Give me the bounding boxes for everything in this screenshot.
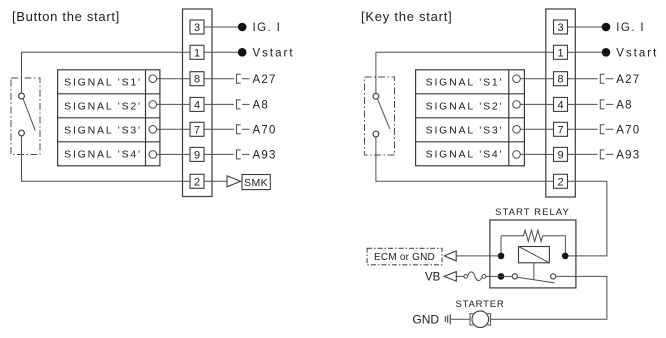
signal block (left) (58, 70, 160, 166)
connector strip J1 (left) (183, 9, 213, 197)
svg-text:SIGNAL 'S1': SIGNAL 'S1' (426, 77, 504, 89)
arrow VB (444, 272, 456, 282)
inline connector (circle squiggle circle) (464, 272, 501, 281)
wire relay switch out to starter (491, 276, 607, 319)
svg-text:Vstart: Vstart (253, 47, 295, 59)
svg-text:SIGNAL 'S2': SIGNAL 'S2' (64, 101, 142, 113)
wire switch bottom to pin 2 (left) (22, 136, 191, 181)
pin 2 (right) (554, 174, 568, 188)
svg-text:1: 1 (557, 47, 563, 59)
connector symbol A27 (right) (600, 74, 613, 83)
svg-text:8: 8 (557, 74, 563, 86)
svg-text:A8: A8 (253, 100, 269, 112)
junction dot coil right (562, 253, 569, 260)
relay switch contacts (501, 274, 556, 283)
wire pin 1 to Vstart (right) (568, 51, 603, 53)
pin 1 (left) (190, 45, 204, 59)
terminal dot IG. I (left) (238, 23, 247, 32)
pin 4 (left) (190, 97, 204, 111)
connector symbol A93 (left) (237, 150, 250, 159)
svg-text:SIGNAL 'S3': SIGNAL 'S3' (64, 125, 142, 137)
svg-text:2: 2 (557, 176, 563, 188)
svg-text:2: 2 (194, 176, 200, 188)
terminal dot IG. I (right) (602, 23, 611, 32)
svg-text:SIGNAL 'S4': SIGNAL 'S4' (64, 149, 142, 161)
connector symbol A70 (left) (237, 125, 250, 134)
connector symbol A70 (right) (600, 125, 613, 134)
wire pin 7 to A70 (right) (568, 128, 598, 130)
output contact circle S1 (left) (149, 75, 157, 83)
svg-text:VB: VB (425, 271, 441, 283)
wire S3 to pin 7 (left) (157, 128, 190, 130)
svg-text:9: 9 (557, 149, 563, 161)
pin 2 (left) (190, 174, 204, 188)
wire switch bottom to pin 2 (right) (376, 137, 554, 181)
svg-text:A93: A93 (253, 150, 277, 162)
wire pin 2 down to relay coil (right) (565, 181, 607, 256)
switch SW1 (left) (19, 93, 36, 136)
svg-text:9: 9 (194, 149, 200, 161)
wire S4 to pin 9 (left) (157, 153, 190, 155)
wire ground to starter motor (451, 318, 470, 320)
wire switch top to pin 1 (left) (22, 52, 191, 93)
output contact circle S2 (right) (513, 101, 521, 109)
ground stud symbol (445, 314, 450, 324)
svg-text:[Button the start]: [Button the start] (12, 9, 120, 24)
output contact circle S4 (left) (149, 151, 157, 159)
wire pin 2 to SMK (left) (204, 180, 227, 182)
svg-text:GND: GND (412, 313, 439, 327)
svg-text:A27: A27 (253, 74, 277, 86)
pin 1 (right) (554, 45, 568, 59)
wire pin 9 to A93 (left) (204, 153, 234, 155)
svg-text:SIGNAL 'S1': SIGNAL 'S1' (64, 77, 142, 89)
wire VB to connector (456, 275, 464, 277)
terminal dot Vstart (left) (238, 48, 247, 57)
svg-text:8: 8 (194, 74, 200, 86)
starter motor M1 (470, 311, 491, 328)
svg-text:7: 7 (194, 124, 200, 136)
svg-text:4: 4 (557, 99, 563, 111)
svg-text:IG. I: IG. I (253, 22, 282, 34)
wire resistor left lead down (500, 236, 502, 256)
wire pin 4 to A8 (right) (568, 103, 598, 105)
arrow to ECM or GND (444, 251, 456, 261)
svg-text:A70: A70 (253, 124, 277, 136)
wire pin 4 to A8 (left) (204, 103, 234, 105)
svg-text:IG. I: IG. I (616, 22, 645, 34)
switch SW2 (right) (373, 93, 390, 137)
relay coil L1 (519, 247, 550, 263)
wire pin 8 to A27 (left) (204, 78, 234, 80)
svg-text:SIGNAL 'S2': SIGNAL 'S2' (426, 101, 504, 113)
pin 3 (right) (554, 20, 568, 34)
pin 7 (right) (554, 122, 568, 136)
svg-text:A8: A8 (616, 100, 632, 112)
wire S4 to pin 9 (right) (520, 153, 553, 155)
svg-text:Vstart: Vstart (616, 47, 658, 59)
wire S1 to pin 8 (right) (520, 78, 553, 80)
terminal dot Vstart (right) (602, 48, 611, 57)
SMK box (242, 175, 270, 190)
switch enclosure (dash-dot, left) (11, 78, 40, 155)
arrow to SMK (227, 176, 241, 187)
wire pin 9 to A93 (right) (568, 153, 598, 155)
svg-text:3: 3 (557, 22, 563, 34)
signal block (right) (416, 70, 525, 166)
relay actuator link (533, 263, 535, 280)
wire pin 8 to A27 (right) (568, 78, 598, 80)
connector strip J2 (right) (546, 9, 576, 197)
pin 7 (left) (190, 122, 204, 136)
wire S3 to pin 7 (right) (520, 128, 553, 130)
junction dot switch common (498, 273, 505, 280)
svg-text:A93: A93 (616, 150, 640, 162)
wire pin 7 to A70 (left) (204, 128, 234, 130)
resistor R1 (relay) (501, 230, 565, 241)
junction dot coil left (498, 253, 505, 260)
start relay box K1 (490, 220, 576, 288)
wire S2 to pin 4 (left) (157, 103, 190, 105)
pin 9 (right) (554, 147, 568, 161)
connector symbol A8 (left) (237, 100, 250, 109)
svg-text:3: 3 (194, 22, 200, 34)
output contact circle S4 (right) (513, 151, 521, 159)
svg-text:ECM or GND: ECM or GND (374, 252, 435, 263)
svg-text:4: 4 (194, 99, 200, 111)
pin 4 (right) (554, 97, 568, 111)
connector symbol A27 (left) (237, 74, 250, 83)
svg-text:START RELAY: START RELAY (495, 207, 570, 218)
svg-text:STARTER: STARTER (455, 299, 504, 310)
svg-text:[Key the start]: [Key the start] (361, 9, 452, 24)
svg-text:A70: A70 (616, 124, 640, 136)
switch enclosure (dash-dot, right) (365, 77, 395, 155)
ECM or GND box (dash-dot) (367, 248, 442, 264)
connector symbol A93 (right) (600, 150, 613, 159)
svg-text:7: 7 (557, 124, 563, 136)
svg-text:1: 1 (194, 47, 200, 59)
wire switch top to pin 1 (right) (376, 52, 554, 93)
output contact circle S1 (right) (513, 75, 521, 83)
connector symbol A8 (right) (600, 100, 613, 109)
wire pin 3 to IG. I (left) (204, 26, 238, 28)
wire pin 3 to IG. I (right) (568, 26, 603, 28)
pin 8 (left) (190, 72, 204, 86)
pin 3 (left) (190, 20, 204, 34)
wire resistor right lead down (564, 236, 566, 256)
wire coil left to ECM arrow (456, 255, 501, 257)
svg-text:A27: A27 (616, 74, 640, 86)
svg-text:SMK: SMK (244, 177, 268, 189)
svg-text:SIGNAL 'S3': SIGNAL 'S3' (426, 125, 504, 137)
pin 8 (right) (554, 72, 568, 86)
wire S2 to pin 4 (right) (520, 103, 553, 105)
output contact circle S2 (left) (149, 101, 157, 109)
output contact circle S3 (right) (513, 126, 521, 134)
pin 9 (left) (190, 147, 204, 161)
output contact circle S3 (left) (149, 126, 157, 134)
wire pin 1 to Vstart (left) (204, 51, 238, 53)
svg-text:SIGNAL 'S4': SIGNAL 'S4' (426, 149, 504, 161)
wire S1 to pin 8 (left) (157, 78, 190, 80)
